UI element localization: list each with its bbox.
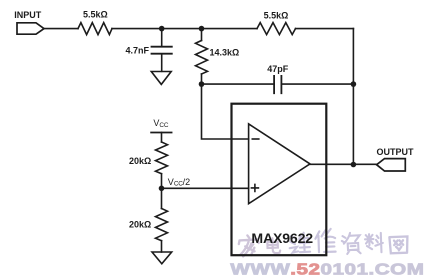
watermark char liao — [365, 233, 383, 253]
ground under C 4.7n — [151, 72, 171, 85]
power VCC rail — [151, 132, 172, 134]
svg-text:20kΩ: 20kΩ — [129, 219, 151, 229]
junction node C — [199, 81, 205, 87]
watermark char jia — [238, 235, 259, 257]
resistor R 14.3k — [196, 41, 208, 75]
resistor R 5.5k input — [78, 23, 112, 35]
svg-text:14.3kΩ: 14.3kΩ — [210, 48, 240, 58]
resistor R 20k lower — [156, 209, 168, 241]
wire R1 to node A — [112, 28, 162, 30]
capacitor C 4.7nF — [152, 47, 172, 54]
op-amp U1 triangle — [249, 124, 310, 204]
wire R 20k upper to node VCC/2 — [161, 174, 163, 189]
junction node VCC/2 — [159, 186, 165, 192]
watermark chinese line — [238, 229, 408, 257]
svg-text:47pF: 47pF — [267, 64, 289, 74]
node INPUT flag — [17, 23, 44, 34]
watermark char zi — [341, 232, 360, 254]
watermark url line — [230, 260, 424, 278]
svg-text:OUTPUT: OUTPUT — [377, 147, 415, 157]
wire input flag to R1 — [44, 28, 78, 30]
wire R2 to right rail — [296, 28, 354, 30]
wire R 20k lower to ground — [161, 241, 163, 252]
op-amp U1 box — [232, 104, 327, 256]
resistor R 20k upper — [156, 142, 168, 174]
watermark char wei — [289, 232, 310, 252]
op-amp inverting pin mark — [252, 138, 258, 140]
svg-text:WWW.520101.COM: WWW.520101.COM — [230, 260, 424, 278]
op-amp non-inverting pin mark — [251, 184, 258, 191]
wire R 14.3k to node C — [201, 74, 203, 84]
wire VCC rail to R 20k upper — [161, 133, 163, 143]
junction node B — [199, 26, 205, 32]
junction node OUT — [351, 162, 357, 168]
wire node B to R2 — [202, 28, 258, 30]
capacitor C 47pF — [274, 76, 281, 93]
svg-text:INPUT: INPUT — [14, 10, 42, 20]
watermark char dian — [267, 238, 280, 253]
junction node A — [159, 26, 165, 32]
svg-text:5.5kΩ: 5.5kΩ — [264, 10, 289, 20]
wire node A down to C 4.7n — [161, 29, 163, 47]
wire C 4.7n to ground — [161, 54, 163, 71]
resistor R 5.5k feedback — [257, 23, 296, 35]
wire op-amp output — [310, 163, 377, 165]
junction node D on right rail — [351, 81, 357, 87]
node OUTPUT flag — [377, 159, 406, 171]
wire C 47p to right rail — [281, 83, 353, 85]
svg-text:20kΩ: 20kΩ — [129, 156, 151, 166]
wire node VCC/2 to R 20k lower — [161, 188, 163, 208]
svg-text:5.5kΩ: 5.5kΩ — [83, 10, 108, 20]
ground under R 20k lower — [152, 252, 172, 264]
svg-text:VCC/2: VCC/2 — [168, 177, 190, 188]
watermark char xiu — [315, 229, 336, 253]
watermark char wang — [389, 237, 408, 254]
svg-text:VCC: VCC — [153, 118, 168, 129]
svg-text:MAX9622: MAX9622 — [251, 230, 313, 246]
svg-text:4.7nF: 4.7nF — [125, 45, 149, 55]
wire node C to C 47p — [202, 83, 275, 85]
wire node A to node B — [162, 28, 202, 30]
wire node C down to inverting input — [202, 84, 249, 139]
wire node B down to R 14.3k — [201, 29, 203, 41]
wire right rail vertical — [352, 29, 354, 165]
wire node VCC/2 to non-inverting input — [162, 187, 249, 189]
